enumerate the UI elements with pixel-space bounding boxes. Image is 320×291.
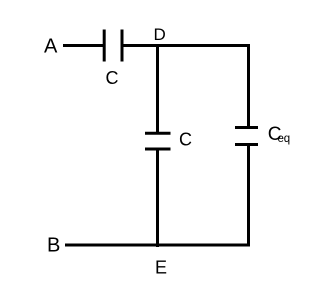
- wire D down to middle capacitor top plate: [156, 44, 159, 134]
- wire capacitor C right plate to top-right corner through node D: [123, 44, 250, 47]
- capacitor C1 (top, label C) left plate: [103, 30, 106, 62]
- capacitor Ceq bottom plate: [235, 143, 258, 146]
- svg-text:A: A: [44, 36, 58, 58]
- wire A to capacitor C left plate: [63, 44, 103, 47]
- wire middle capacitor bottom plate down to node E: [156, 149, 159, 247]
- svg-text:C: C: [179, 130, 192, 150]
- capacitor C2 (middle, label C) bottom plate: [145, 148, 171, 151]
- wire Ceq bottom plate down to bottom-right corner: [247, 145, 250, 247]
- svg-text:D: D: [154, 25, 166, 44]
- capacitor C1 (top, label C) right plate: [121, 30, 124, 62]
- svg-text:E: E: [155, 258, 167, 278]
- svg-text:eq: eq: [278, 133, 290, 145]
- svg-text:B: B: [47, 235, 60, 257]
- wire right branch: top wire corner down to Ceq top plate: [247, 44, 250, 128]
- svg-text:C: C: [106, 68, 119, 88]
- capacitor C2 (middle, label C) top plate: [145, 132, 171, 135]
- wire bottom: B to bottom-right corner through node E: [65, 244, 250, 247]
- capacitor Ceq top plate: [235, 126, 258, 129]
